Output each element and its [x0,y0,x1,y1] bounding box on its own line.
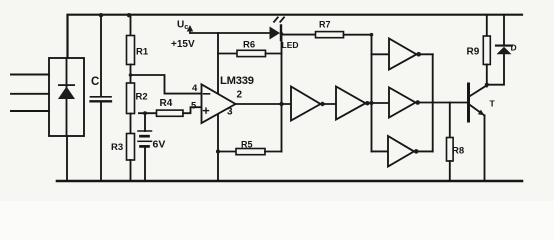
svg-text:R9: R9 [467,47,480,58]
svg-text:R2: R2 [136,92,148,103]
svg-text:T: T [490,99,496,109]
svg-text:R4: R4 [160,98,173,109]
svg-text:C: C [91,76,99,88]
svg-text:2: 2 [237,90,243,101]
svg-text:5: 5 [191,101,197,112]
svg-text:6V: 6V [153,139,166,151]
svg-text:R6: R6 [243,40,255,51]
svg-text:R7: R7 [319,20,331,30]
svg-text:R8: R8 [452,146,464,157]
svg-text:+15V: +15V [171,39,195,50]
svg-text:LED: LED [282,40,299,50]
svg-text:Uc: Uc [177,20,188,32]
svg-text:3: 3 [227,107,233,118]
svg-text:LM339: LM339 [220,75,254,87]
svg-text:D: D [511,43,517,53]
svg-text:R1: R1 [136,47,149,58]
svg-text:4: 4 [192,83,198,94]
svg-text:R5: R5 [241,140,253,150]
svg-text:R3: R3 [111,142,123,153]
